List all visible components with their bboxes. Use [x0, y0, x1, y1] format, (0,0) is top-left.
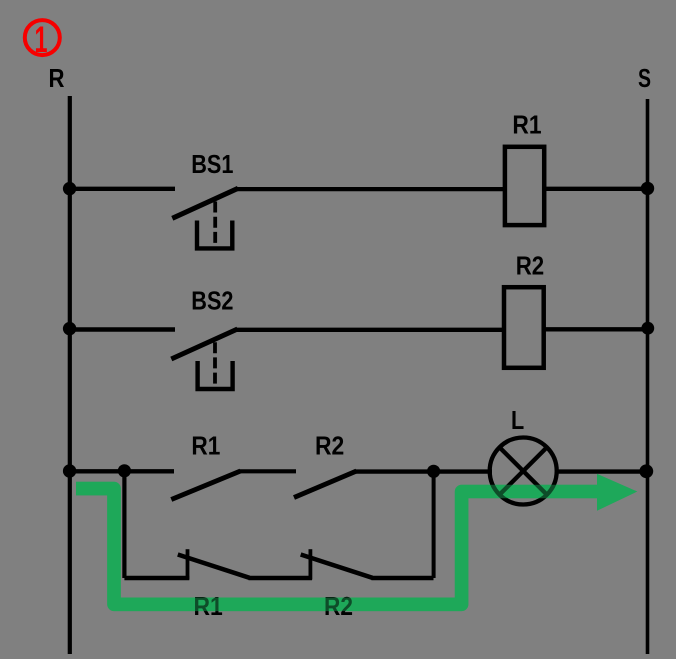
wire rung1 middle — [237, 187, 506, 191]
contact R1 NO — [171, 471, 240, 500]
wire bottom left — [124, 576, 189, 580]
current path arrow (green) base layer — [76, 474, 637, 604]
wire rung3 between contacts — [239, 469, 296, 473]
svg-text:R2: R2 — [315, 430, 344, 460]
svg-text:S: S — [638, 63, 651, 93]
node rung1 right junction — [641, 182, 654, 195]
node rung3 branch right — [427, 465, 440, 478]
wire rung3 left — [70, 469, 175, 473]
right rail S — [646, 99, 650, 654]
pushbutton BS2 — [171, 329, 237, 389]
wire branch up right — [432, 471, 436, 578]
svg-text:1: 1 — [35, 19, 48, 60]
svg-text:BS2: BS2 — [191, 286, 233, 316]
contact R2 NO — [294, 471, 357, 498]
node rung3 branch left — [118, 464, 131, 477]
svg-text:R1: R1 — [512, 110, 541, 140]
wire rung1 left — [70, 187, 176, 191]
wire rung2 left — [70, 327, 176, 332]
node rung2 right junction — [641, 322, 654, 335]
contact R2 NC (bottom) — [301, 549, 373, 579]
wire rung1 right — [545, 187, 648, 191]
svg-text:R1: R1 — [191, 431, 220, 461]
lamp L — [490, 438, 557, 505]
svg-text:L: L — [511, 405, 524, 435]
relay coil R2 — [504, 287, 544, 368]
contact R1 NC (bottom) — [178, 549, 250, 579]
wire rung2 right — [544, 327, 648, 331]
wire bottom middle — [249, 576, 313, 580]
svg-text:BS1: BS1 — [191, 149, 233, 179]
svg-text:R2: R2 — [516, 251, 545, 281]
left rail R — [68, 96, 72, 654]
wire bottom right — [371, 576, 433, 580]
current path arrow (green) highlight overlay — [76, 474, 637, 604]
svg-text:R: R — [49, 63, 65, 93]
pushbutton BS1 — [172, 188, 238, 248]
wire lamp to right rail — [557, 469, 648, 473]
node rung2 left junction — [63, 322, 76, 335]
node rung1 left junction — [63, 182, 76, 195]
wire rung3 to lamp — [355, 469, 492, 473]
wire branch down left — [122, 471, 126, 578]
node rung3 left junction — [63, 464, 76, 477]
relay coil R1 — [505, 147, 544, 225]
node rung3 right junction — [639, 464, 653, 478]
marker circled 1 — [25, 19, 60, 60]
wire rung2 middle — [236, 328, 504, 332]
